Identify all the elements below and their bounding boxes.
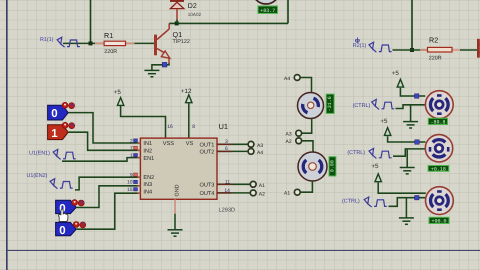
svg-text:+5: +5 [392, 70, 400, 77]
hand cursor [59, 209, 68, 221]
generator (CTRL) row3 [342, 197, 387, 207]
wire A3 to motor A bottom [302, 118, 312, 133]
wire R1 to Q1 base [126, 42, 156, 44]
svg-text:9: 9 [130, 172, 133, 178]
wire +5 to VSS pin 16 [121, 106, 166, 139]
svg-text:OUT1: OUT1 [199, 142, 214, 148]
svg-text:IN4: IN4 [143, 189, 152, 195]
U1 right pin stubs [217, 144, 232, 193]
U1 left pin stubs [137, 143, 141, 193]
svg-text:A3: A3 [257, 143, 263, 149]
display of top-left motor [258, 6, 278, 14]
svg-text:1: 1 [51, 128, 58, 140]
svg-text:-31.6: -31.6 [327, 96, 333, 111]
pin square motor R1 [415, 94, 419, 98]
transistor Q1 TIP122 [156, 23, 190, 63]
generator U1(EN1) [29, 149, 76, 159]
svg-text:A2: A2 [259, 192, 265, 198]
terminal A3 at motor [286, 130, 302, 137]
svg-text:VS: VS [186, 141, 194, 147]
display motor R1 [428, 118, 447, 125]
logic state box 0 (IN1) [48, 105, 69, 120]
motor R2 (servo) [425, 135, 452, 162]
generator (CTRL) row1 [353, 99, 395, 109]
svg-text:GND: GND [175, 184, 181, 196]
pin numbers U1 left [127, 138, 133, 193]
toggle buttons of box 1 [62, 122, 75, 128]
svg-text:220R: 220R [104, 49, 117, 55]
svg-text:VSS: VSS [163, 141, 174, 147]
svg-text:10A02: 10A02 [188, 12, 202, 17]
svg-text:+0.18: +0.18 [431, 166, 446, 172]
terminal A2 at U1 [250, 190, 265, 198]
svg-text:+12: +12 [181, 88, 192, 95]
sheet border bottom [7, 249, 480, 251]
svg-text:8: 8 [192, 124, 195, 130]
wire box1 to IN2 pin 7 [68, 132, 140, 150]
terminal A1 at U1 [250, 181, 265, 188]
pin square motor R2 [415, 140, 419, 144]
toggle buttons of box IN3 [72, 200, 85, 206]
wire +5 to motor R3 pin1 [378, 183, 426, 194]
display motor R3 [429, 217, 449, 224]
svg-text:R2(1): R2(1) [353, 43, 367, 49]
svg-text:+5: +5 [371, 163, 379, 170]
svg-text:+90.0: +90.0 [431, 218, 446, 224]
svg-text:D2: D2 [188, 3, 197, 10]
logic state box 0 (IN4) [56, 222, 77, 237]
generator R2(1) [353, 37, 392, 52]
wire U1(EN2) to EN2 pin 9 [75, 177, 140, 190]
pin-state square on emitter wire [162, 62, 167, 67]
diode D2 10A02 [170, 1, 202, 24]
svg-text:0.00: 0.00 [329, 160, 335, 172]
wire R2(1) to R2 [393, 49, 428, 51]
power +5 row2 [380, 118, 390, 136]
generator U1(EN2) [27, 173, 73, 189]
svg-text:(CTRL): (CTRL) [353, 103, 371, 109]
wire box0 to IN1 pin 2 [68, 113, 140, 143]
svg-text:A2: A2 [286, 139, 292, 145]
terminal A2 at motor [286, 138, 302, 145]
power +5 symbol (VSS) [114, 89, 124, 105]
node junction at R1 left [89, 41, 93, 45]
display motor R2 [428, 166, 449, 173]
wire U1(EN1) to EN1 pin 1 [62, 158, 140, 162]
svg-text:A4: A4 [257, 150, 263, 156]
pin square motor R3 [415, 196, 419, 200]
wire +5 to motor R2 pin1 [388, 136, 426, 142]
power +12 symbol (VS) [181, 88, 192, 103]
toggle buttons of box 0 [62, 102, 75, 108]
sheet border left [6, 0, 8, 270]
svg-text:+5: +5 [380, 118, 388, 125]
toggle buttons of box IN4 [73, 222, 86, 228]
wire A1 to motor B bottom [301, 181, 313, 192]
wire OUT1 to A3 [217, 143, 248, 145]
terminal A1 at motor [284, 189, 300, 196]
ground row2 [406, 149, 408, 167]
wire CTRL row1 to motor R1 pin2 [396, 105, 426, 109]
resistor R1 [95, 31, 135, 55]
logic state box 0 (IN3) [56, 200, 77, 215]
svg-text:15: 15 [127, 187, 133, 193]
top-left motor partially visible [253, 0, 280, 4]
IC U1 L293D body [140, 122, 235, 214]
U1 pin labels top/bottom [163, 141, 194, 197]
terminal A3 at U1 [248, 141, 263, 148]
svg-text:A3: A3 [286, 131, 292, 137]
svg-text:A1: A1 [284, 191, 290, 197]
svg-text:IN3: IN3 [143, 182, 152, 188]
svg-text:R2: R2 [429, 36, 438, 45]
wire vertical feed to R2 [411, 0, 413, 50]
motor R3 (servo) [426, 187, 454, 215]
svg-text:OUT2: OUT2 [199, 150, 214, 156]
svg-text:7: 7 [130, 146, 133, 152]
svg-text:1: 1 [130, 153, 133, 159]
ground row3 [405, 198, 407, 218]
svg-text:-89.8: -89.8 [430, 119, 445, 125]
svg-text:U1(EN1): U1(EN1) [29, 151, 50, 157]
svg-text:(CTRL): (CTRL) [342, 199, 360, 205]
svg-text:EN2: EN2 [143, 175, 154, 181]
svg-text:R1(1): R1(1) [40, 37, 54, 43]
ground under Q1 emitter [144, 70, 159, 76]
svg-text:0: 0 [51, 108, 57, 120]
svg-text:IN2: IN2 [143, 149, 152, 155]
display of motor A [326, 94, 334, 113]
wire OUT3 to A1 [217, 183, 250, 185]
wire box IN3 to pin 10 [76, 186, 140, 208]
wire R1(1) source to R1 [63, 42, 105, 44]
U1 pin labels right [199, 142, 214, 197]
transistor Q2 partial [477, 39, 480, 58]
pin numbers U1 right [224, 139, 230, 194]
svg-text:IN1: IN1 [143, 141, 152, 147]
svg-text:220R: 220R [429, 55, 442, 61]
svg-text:A1: A1 [259, 183, 265, 189]
node junction under D2 [175, 21, 179, 25]
pin state squares U1 left [134, 139, 138, 191]
wire OUT4 to A2 [217, 192, 250, 194]
display of motor B [329, 157, 336, 176]
generator R1(1) [40, 37, 80, 47]
wire A2 to motor B top [302, 141, 313, 153]
svg-text:0: 0 [59, 225, 65, 237]
resistor R2 [420, 36, 460, 62]
wire vertical feed to R1 node [90, 0, 92, 43]
U1 pin labels left [143, 141, 154, 195]
svg-text:L293D: L293D [219, 208, 235, 214]
motor A (servo) [298, 93, 324, 119]
svg-text:A4: A4 [284, 76, 290, 82]
wire Q1 emitter to ground [152, 63, 169, 70]
power +5 row3 [371, 163, 381, 182]
motor R1 (servo) [425, 91, 453, 119]
svg-text:OUT4: OUT4 [199, 191, 214, 197]
wire A4 to motor A [300, 78, 311, 93]
terminal A4 at motor [284, 75, 300, 83]
wire collector node to top-left motor [169, 0, 288, 23]
svg-text:2: 2 [130, 138, 133, 144]
motor B (servo) [298, 152, 327, 181]
svg-text:R1: R1 [104, 31, 113, 40]
svg-text:TIP122: TIP122 [173, 39, 190, 45]
ground under U1 [168, 230, 183, 236]
svg-text:EN1: EN1 [143, 156, 154, 162]
wire R2 to Q2 [460, 49, 477, 51]
svg-text:16: 16 [167, 124, 173, 130]
wire box IN4 to pin 15 [76, 193, 140, 229]
wire +12 to VS pin 8 [188, 103, 190, 138]
wire CTRL row2 to motor R2 pin2 [393, 149, 426, 156]
logic state box 1 (IN2) [48, 125, 69, 140]
terminal A4 at U1 [248, 149, 263, 157]
U1 gnd pin wire [174, 214, 176, 230]
svg-text:OUT3: OUT3 [199, 182, 214, 188]
svg-text:+83.7: +83.7 [260, 8, 275, 14]
svg-text:Q1: Q1 [173, 30, 183, 39]
node junction at R2 [410, 48, 414, 52]
svg-text:+5: +5 [114, 89, 122, 96]
wire OUT2 to A4 [217, 150, 248, 152]
ground row1 [410, 105, 412, 121]
svg-text:U1: U1 [219, 122, 229, 131]
wire +5 to motor R1 pin1 [400, 88, 425, 96]
wire CTRL row3 to motor R3 pin2 [389, 198, 426, 207]
svg-text:(CTRL): (CTRL) [347, 150, 365, 156]
generator (CTRL) row2 [347, 148, 391, 158]
power +5 row1 [392, 70, 404, 87]
svg-text:U1(EN2): U1(EN2) [27, 173, 48, 179]
svg-text:10: 10 [127, 180, 133, 186]
